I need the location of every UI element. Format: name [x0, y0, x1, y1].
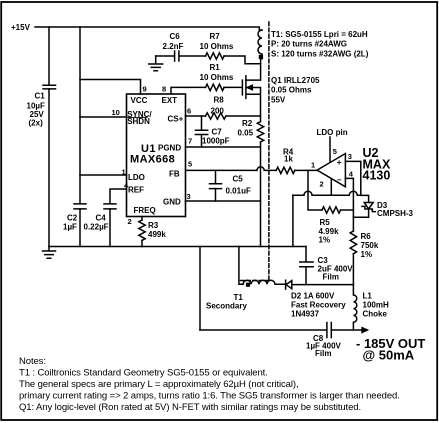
wire C3 top lead [305, 247, 307, 262]
capacitor C1 [43, 85, 56, 89]
svg-text:2: 2 [320, 180, 324, 189]
wire C1 branch from +15V rail [48, 27, 50, 85]
svg-text:R6: R6 [361, 232, 372, 241]
svg-text:FREQ: FREQ [134, 206, 156, 215]
svg-text:S: 120 turns #32AWG (2L): S: 120 turns #32AWG (2L) [271, 50, 369, 59]
wire pin2 lead [330, 179, 332, 196]
svg-text:9: 9 [143, 85, 147, 94]
output arrowhead [361, 327, 369, 334]
svg-text:VCC: VCC [131, 96, 148, 105]
svg-text:750k: 750k [361, 241, 379, 250]
svg-text:0.22µF: 0.22µF [84, 223, 109, 232]
svg-text:1µF: 1µF [63, 223, 77, 232]
resistor R6 [350, 231, 356, 254]
capacitor C6 [175, 51, 179, 61]
transformer primary phase dot [259, 55, 263, 59]
inductor L1 [353, 285, 356, 330]
svg-text:P: 20 turns #24AWG: P: 20 turns #24AWG [271, 40, 347, 49]
diode D3 schottky bar [362, 206, 375, 211]
svg-text:R3: R3 [148, 221, 159, 230]
wire R2 bottom to ground rail [260, 142, 262, 247]
resistor R4 [276, 167, 295, 173]
svg-text:C2: C2 [67, 214, 78, 223]
svg-text:C5: C5 [233, 175, 244, 184]
svg-text:1000pF: 1000pF [202, 136, 230, 145]
svg-text:10 Ohms: 10 Ohms [200, 73, 234, 82]
svg-text:R2: R2 [242, 119, 253, 128]
svg-text:L1: L1 [363, 292, 373, 301]
svg-text:D2 1A 600V: D2 1A 600V [291, 292, 335, 301]
capacitor C8 [327, 323, 331, 338]
svg-text:+: + [337, 158, 342, 167]
wire PGND pin7 line [186, 146, 261, 148]
svg-text:4130: 4130 [363, 169, 391, 183]
svg-text:MAX668: MAX668 [130, 154, 175, 166]
svg-text:LDO: LDO [128, 173, 145, 182]
wire VSS net with hops [293, 191, 361, 195]
svg-text:6: 6 [187, 107, 191, 116]
svg-text:200: 200 [211, 106, 225, 115]
svg-text:PGND: PGND [158, 143, 181, 152]
wire C2 bottom [79, 209, 81, 247]
wire C8 to output arrow [331, 329, 361, 331]
wire EXT pin8 stub and gate line [171, 87, 206, 94]
capacitor C5 [210, 184, 222, 189]
wire bottom output rail [200, 329, 327, 331]
wire R3 bottom [141, 240, 143, 246]
wire FREQ pin2 stub [141, 217, 143, 221]
svg-text:1: 1 [311, 161, 315, 170]
svg-text:0.01uF: 0.01uF [226, 186, 251, 195]
svg-text:FB: FB [169, 169, 180, 178]
svg-text:CS+: CS+ [168, 114, 184, 123]
svg-text:7: 7 [188, 137, 192, 146]
svg-text:+15V: +15V [11, 23, 31, 32]
svg-text:C4: C4 [96, 214, 107, 223]
wire C5 top lead [215, 170, 217, 183]
svg-text:−: − [337, 175, 342, 184]
resistor R2 [257, 122, 263, 142]
svg-text:SHDN: SHDN [127, 117, 150, 126]
svg-text:0.05: 0.05 [238, 128, 254, 137]
svg-text:Film: Film [323, 273, 339, 282]
wire C6 left lead [156, 55, 174, 57]
wire input node down to R5 [308, 170, 322, 210]
node +15V top rail wire [35, 27, 262, 30]
svg-text:R8: R8 [214, 95, 225, 104]
resistor R8 [206, 113, 226, 119]
svg-text:Secondary: Secondary [206, 302, 247, 311]
wire REF pin4 line [110, 189, 127, 204]
wire VSS net down to ground rail [292, 195, 294, 246]
resistor R3 [139, 220, 145, 240]
svg-text:(2x): (2x) [29, 119, 44, 128]
svg-text:1k: 1k [284, 155, 293, 164]
wire pin3 tap to D3 top [345, 161, 368, 202]
wire bottom-left vertical [199, 247, 201, 331]
wire R6 bottom to rectified node [352, 254, 354, 285]
resistor R1 [206, 84, 225, 90]
wire primary bottom to Q1 drain [246, 59, 261, 80]
svg-text:3: 3 [187, 192, 191, 201]
wire R1 to Q1 gate [224, 86, 242, 88]
wire VCC pin9 line [80, 80, 141, 95]
svg-text:Fast Recovery: Fast Recovery [291, 301, 346, 310]
svg-text:1N4937: 1N4937 [291, 310, 320, 319]
wire GND pin3 line [186, 200, 261, 202]
svg-text:The general specs are primary: The general specs are primary L = approx… [19, 379, 298, 390]
wire FB pin5 line with hop [186, 167, 277, 171]
svg-text:10: 10 [112, 108, 120, 117]
resistor R5 [322, 207, 341, 213]
wire C1 bottom to ground rail [48, 89, 50, 247]
wire C7 top lead [201, 116, 203, 130]
svg-text:Choke: Choke [363, 310, 388, 319]
wire C6 to R7 [180, 55, 206, 57]
svg-text:55V: 55V [271, 96, 286, 105]
svg-text:Q1: Any logic-level (Ron rated: Q1: Any logic-level (Ron rated at 5V) N-… [19, 402, 361, 413]
resistor R7 [206, 53, 225, 59]
wire LDO pin5 lead [329, 137, 331, 162]
svg-text:2: 2 [128, 217, 132, 226]
svg-text:R7: R7 [210, 32, 221, 41]
svg-text:CMPSH-3: CMPSH-3 [377, 209, 414, 218]
svg-text:T1 : Coiltronics Standard Geom: T1 : Coiltronics Standard Geometry SG5-0… [19, 368, 268, 379]
svg-text:primary current rating => 2 am: primary current rating => 2 amps, turns … [19, 391, 400, 402]
svg-text:1: 1 [122, 168, 126, 177]
wire C5 bottom lead [215, 189, 217, 201]
svg-text:8: 8 [162, 85, 166, 94]
wire pin4 tap down to R6 [345, 178, 353, 231]
svg-text:Q1 IRLL2705: Q1 IRLL2705 [271, 76, 320, 85]
transformer secondary phase dot [246, 283, 250, 287]
wire LDO pin1 line [80, 174, 127, 176]
svg-text:@ 50mA: @ 50mA [363, 348, 415, 363]
svg-text:0.05 Ohms: 0.05 Ohms [271, 86, 312, 95]
op-amp U1 triangle [317, 154, 345, 187]
svg-text:REF: REF [128, 185, 144, 194]
wire SYNC pin10 line [80, 116, 127, 118]
svg-text:1%: 1% [361, 250, 373, 259]
svg-text:100mH: 100mH [363, 301, 389, 310]
svg-text:C1: C1 [35, 92, 46, 101]
transformer T1 dashed boundary [240, 22, 269, 281]
node ground rail [49, 246, 306, 248]
capacitor C3 [300, 262, 313, 267]
capacitor C7 [195, 130, 207, 134]
wire CS+ pin6 line [186, 115, 206, 117]
svg-text:10 Ohms: 10 Ohms [200, 42, 234, 51]
svg-text:Film: Film [315, 349, 331, 358]
ground symbol C6 [149, 56, 163, 71]
wire C7 bottom lead [201, 135, 203, 148]
svg-text:R5: R5 [320, 218, 331, 227]
svg-text:499k: 499k [148, 230, 166, 239]
svg-text:GND: GND [163, 197, 181, 206]
ground symbol main [43, 247, 56, 259]
wire C4 bottom [109, 209, 111, 247]
IC U1 MAX668 box [127, 94, 186, 217]
diode D2 [286, 280, 292, 289]
wire R7 to primary node [224, 56, 261, 64]
capacitor C4 [104, 204, 116, 209]
wire R8 to R2 top [226, 115, 261, 117]
capacitor C2 [74, 204, 86, 209]
svg-text:EXT: EXT [162, 96, 178, 105]
svg-text:5: 5 [188, 160, 192, 169]
wire R4 to op-amp input [295, 169, 317, 171]
transistor Q1 [242, 76, 260, 122]
svg-text:LDO pin: LDO pin [317, 128, 348, 137]
svg-text:Notes:: Notes: [19, 356, 46, 367]
svg-text:3: 3 [348, 152, 352, 161]
svg-text:2.2nF: 2.2nF [163, 42, 184, 51]
svg-text:T1: SG5-0155 Lpri = 62uH: T1: SG5-0155 Lpri = 62uH [271, 30, 368, 39]
diode D3 [364, 203, 373, 209]
wire D3 bottom to pin4 net [353, 209, 368, 217]
svg-text:C7: C7 [212, 127, 223, 136]
transformer T1 primary winding [258, 30, 262, 59]
wire R5 right to pin4 net [341, 209, 354, 211]
svg-text:5: 5 [333, 147, 337, 156]
wire secondary left vertical [239, 247, 243, 285]
wire D2 to rectified node [292, 284, 354, 286]
transistor Q1 body arrow [247, 85, 252, 89]
wire C3 bottom lead [305, 267, 307, 285]
svg-text:R1: R1 [210, 63, 221, 72]
svg-text:1%: 1% [319, 236, 331, 245]
transformer T1 secondary winding [243, 280, 285, 284]
wire left vertical branch x80 [79, 27, 81, 204]
svg-text:C6: C6 [170, 32, 181, 41]
